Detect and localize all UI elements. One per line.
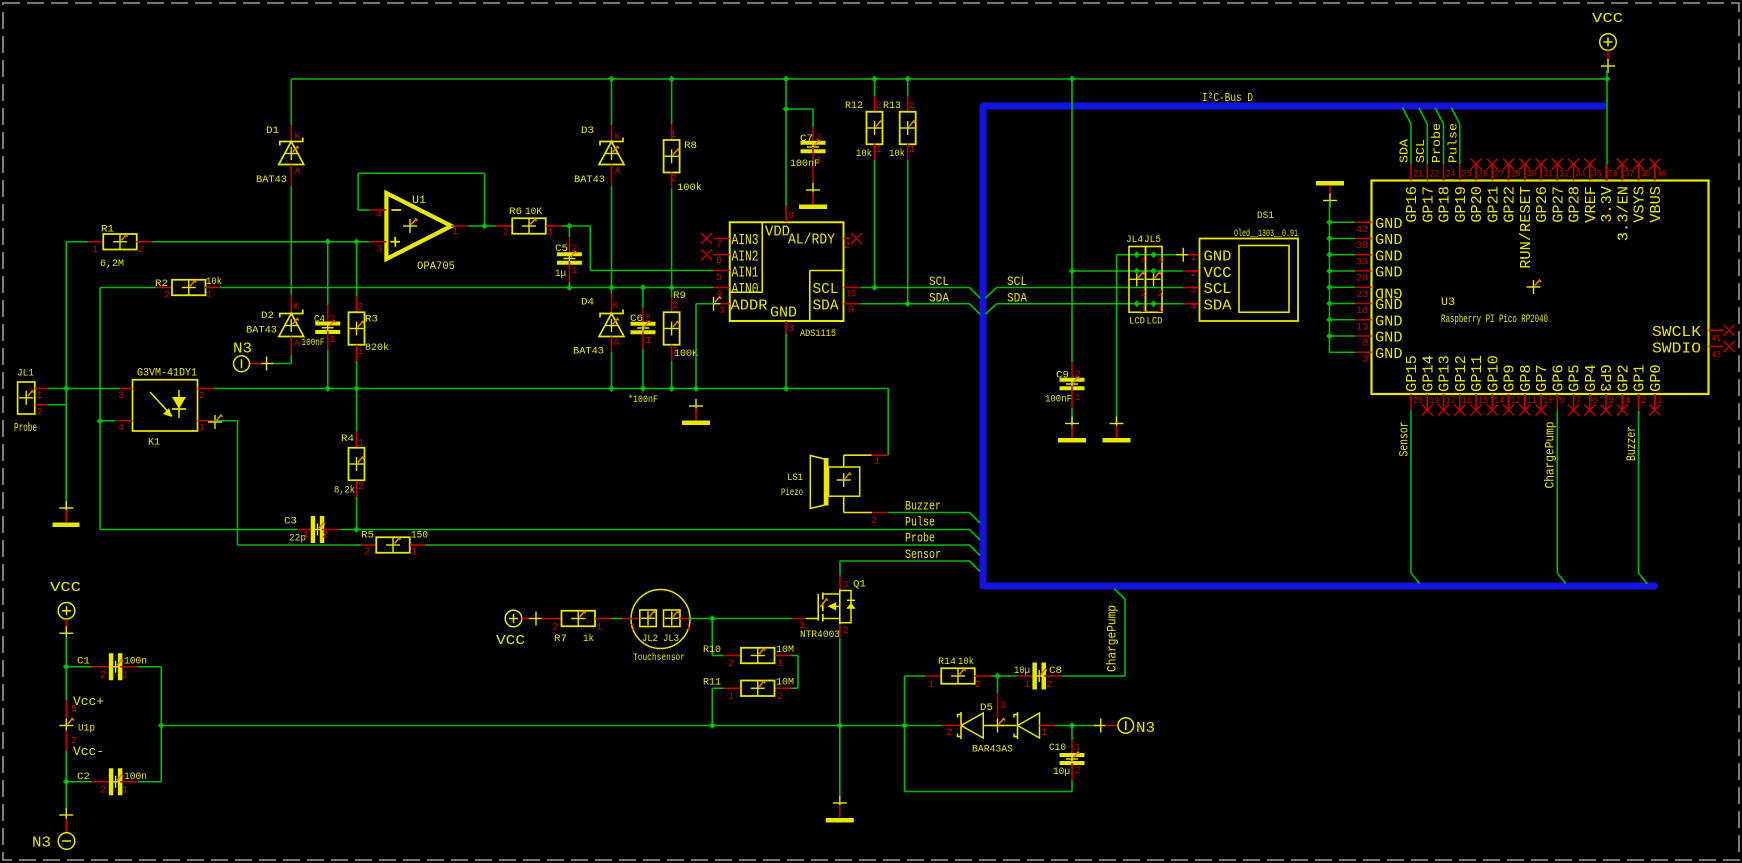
pin LS1.1 xyxy=(843,455,845,467)
ground under JL1 xyxy=(59,507,73,509)
diode D2 BAT43 xyxy=(290,295,292,314)
wire SCL to bus xyxy=(860,287,969,289)
svg-text:GP16: GP16 xyxy=(1404,186,1421,223)
svg-text:R10: R10 xyxy=(703,645,721,656)
svg-text:AIN3: AIN3 xyxy=(732,232,759,249)
capacitor C5 1u xyxy=(568,226,570,237)
pin U3 GND 28 xyxy=(1330,270,1356,272)
svg-text:Oled__1303__0.91: Oled__1303__0.91 xyxy=(1234,228,1298,240)
svg-text:VCC: VCC xyxy=(1204,265,1232,282)
svg-text:2: 2 xyxy=(975,680,981,691)
capacitor C4 100nF xyxy=(327,242,329,305)
svg-text:K: K xyxy=(293,302,299,313)
pin K1.3 xyxy=(120,388,133,390)
svg-text:Vcc-: Vcc- xyxy=(73,744,104,759)
diode D1 BAT43 xyxy=(290,79,292,125)
svg-text:7: 7 xyxy=(716,240,722,251)
svg-text:1: 1 xyxy=(92,245,98,256)
svg-text:Sensor: Sensor xyxy=(1397,422,1412,457)
ground under ADDR xyxy=(689,405,703,407)
pin U3.36 3.3V xyxy=(1605,164,1607,180)
bus entry SCL wire xyxy=(1419,108,1428,125)
capacitor C10 10u xyxy=(1071,726,1073,741)
svg-text:8,2k: 8,2k xyxy=(334,485,355,497)
svg-text:1: 1 xyxy=(909,145,915,156)
pin U3.14 GP10 xyxy=(1491,394,1493,411)
svg-text:10K: 10K xyxy=(525,207,542,218)
svg-text:U1p: U1p xyxy=(78,724,95,735)
svg-text:C5: C5 xyxy=(555,244,568,255)
svg-text:U3: U3 xyxy=(1441,297,1455,309)
svg-text:18: 18 xyxy=(1356,306,1368,317)
svg-text:4: 4 xyxy=(118,423,124,434)
svg-text:2: 2 xyxy=(816,133,822,144)
wire R6 out to AIN1 xyxy=(589,226,591,271)
pin U3.12 GP9 xyxy=(1508,394,1510,411)
svg-text:24: 24 xyxy=(1446,170,1456,181)
svg-text:1: 1 xyxy=(874,457,880,468)
wire 3.3V pin to VCC xyxy=(1606,164,1608,180)
resistor R6 10K xyxy=(496,225,512,227)
wire SDA to bus xyxy=(860,303,969,305)
pin U3.40 VBUS xyxy=(1654,164,1656,180)
svg-text:2: 2 xyxy=(358,303,364,314)
svg-text:C2: C2 xyxy=(77,772,90,783)
svg-text:GP2: GP2 xyxy=(1615,364,1632,392)
svg-text:15: 15 xyxy=(1478,396,1488,407)
wire R11 to Vcc- line xyxy=(711,688,713,725)
resistor R13 10k xyxy=(907,79,909,96)
speaker LS1 Piezo xyxy=(810,456,824,509)
svg-text:1k: 1k xyxy=(583,633,594,645)
svg-text:C8: C8 xyxy=(1049,666,1062,677)
svg-text:N3: N3 xyxy=(1136,720,1155,737)
svg-text:C7: C7 xyxy=(800,134,813,145)
display DS1 Oled_1303_0.91 xyxy=(1200,239,1299,322)
svg-text:GP10: GP10 xyxy=(1485,355,1502,392)
diode D3 BAT43 xyxy=(611,79,613,125)
wire ADDR to ground xyxy=(695,304,697,390)
wire SCL from bus to OLED xyxy=(986,288,997,299)
svg-text:1: 1 xyxy=(670,130,676,141)
svg-text:VCC: VCC xyxy=(496,633,525,649)
pin U1.4 (-in) xyxy=(358,209,369,211)
svg-text:1: 1 xyxy=(122,786,128,797)
capacitor C3 22p xyxy=(298,529,314,531)
svg-text:C6: C6 xyxy=(630,314,643,325)
svg-text:LCD: LCD xyxy=(1129,317,1145,328)
svg-text:10: 10 xyxy=(1543,396,1553,407)
svg-text:1µ: 1µ xyxy=(555,269,566,280)
svg-text:4: 4 xyxy=(1141,256,1146,266)
connector JL1 Probe xyxy=(18,382,35,414)
svg-text:VREF: VREF xyxy=(1583,186,1600,223)
wire K1.1 to Probe line xyxy=(214,420,238,422)
pin U3.26 GP20 xyxy=(1475,164,1477,180)
capacitor C7 100nF xyxy=(812,127,814,147)
wire R14 left leg xyxy=(904,676,906,792)
net Sensor wire from Q1 drain xyxy=(840,560,970,562)
svg-text:100n: 100n xyxy=(124,657,147,668)
pin U3.37 3.3/EN xyxy=(1621,164,1623,180)
svg-text:R13: R13 xyxy=(883,101,901,112)
svg-text:37: 37 xyxy=(1624,170,1634,181)
svg-text:Raspberry PI Pico RP2040: Raspberry PI Pico RP2040 xyxy=(1441,314,1548,326)
net Sensor wire from GP15 xyxy=(1410,411,1412,574)
wire D2 anode to N3 xyxy=(290,355,292,364)
svg-text:29: 29 xyxy=(1511,170,1521,181)
svg-text:GP6: GP6 xyxy=(1550,364,1567,392)
svg-text:3: 3 xyxy=(1362,355,1368,366)
pin U3.19 GP14 xyxy=(1426,394,1428,411)
net Buzzer wire from GP1 xyxy=(1638,411,1640,574)
svg-text:1: 1 xyxy=(330,335,336,346)
svg-text:1: 1 xyxy=(358,347,364,358)
svg-text:27: 27 xyxy=(1494,170,1504,181)
svg-text:13: 13 xyxy=(1356,322,1368,333)
svg-text:1: 1 xyxy=(547,228,553,239)
resistor R5 150 xyxy=(361,544,376,546)
pin U2.7 AIN3 nc xyxy=(714,238,730,240)
svg-text:2: 2 xyxy=(844,241,850,252)
svg-text:GND: GND xyxy=(770,305,797,322)
pin U3.9 GP6 xyxy=(1556,394,1558,411)
pin U2.4 AIN0 xyxy=(714,287,730,289)
svg-text:2: 2 xyxy=(100,671,106,682)
svg-text:C4: C4 xyxy=(314,314,325,325)
svg-text:D1: D1 xyxy=(266,126,279,137)
pin U3 GND 23 xyxy=(1330,286,1356,288)
svg-text:1: 1 xyxy=(206,291,212,302)
ground under C7 xyxy=(806,189,820,191)
svg-text:2: 2 xyxy=(777,692,783,703)
pin U3.11 GP8 xyxy=(1524,394,1526,411)
wire rail down to piezo pin1 xyxy=(887,389,889,456)
svg-text:GP17: GP17 xyxy=(1420,186,1437,223)
JL4/JL5 pin junctions xyxy=(1133,251,1140,258)
capacitor C6 100nF xyxy=(642,288,644,309)
svg-text:GP14: GP14 xyxy=(1420,355,1437,392)
svg-text:ADS1115: ADS1115 xyxy=(800,329,836,340)
svg-text:Pulse: Pulse xyxy=(1446,123,1460,163)
svg-text:3.3/EN: 3.3/EN xyxy=(1615,186,1632,241)
connector JL4 LCD xyxy=(1129,247,1146,313)
IC U2 ADS1115 xyxy=(730,222,844,321)
svg-text:1: 1 xyxy=(1024,680,1030,691)
svg-text:2: 2 xyxy=(843,626,849,637)
capacitor C9 100nF xyxy=(1071,362,1073,382)
svg-text:19: 19 xyxy=(1429,396,1439,407)
svg-text:820k: 820k xyxy=(365,342,389,354)
svg-text:Probe: Probe xyxy=(14,421,37,435)
svg-text:Buzzer: Buzzer xyxy=(1624,426,1639,461)
svg-text:8: 8 xyxy=(1362,339,1368,350)
connector JL5 LCD xyxy=(1146,247,1163,313)
svg-text:2: 2 xyxy=(728,659,734,670)
wire C1/C2 right side xyxy=(160,667,162,782)
wire OLED VCC row xyxy=(1072,270,1183,272)
pin U3 GND 13 xyxy=(1330,319,1356,321)
pin U3 GND 18 xyxy=(1330,303,1356,305)
svg-text:12: 12 xyxy=(1511,396,1521,407)
svg-text:BAR43AS: BAR43AS xyxy=(972,745,1013,756)
svg-text:1: 1 xyxy=(596,623,602,634)
svg-text:1: 1 xyxy=(928,680,934,691)
svg-text:C10: C10 xyxy=(1049,743,1066,754)
svg-text:16: 16 xyxy=(1462,396,1472,407)
svg-text:2: 2 xyxy=(100,786,106,797)
pin D5.2 xyxy=(942,725,961,727)
diode D4 BAT43 xyxy=(611,294,613,314)
svg-text:K1: K1 xyxy=(148,438,160,449)
svg-text:SCL: SCL xyxy=(1007,274,1027,289)
svg-text:C1: C1 xyxy=(77,657,90,668)
bus entry Probe wire xyxy=(1435,108,1444,125)
svg-text:17: 17 xyxy=(1446,396,1456,407)
svg-text:R8: R8 xyxy=(684,141,697,152)
svg-text:Sensor: Sensor xyxy=(905,547,941,562)
svg-text:33: 33 xyxy=(1356,257,1368,268)
pin K1.1 xyxy=(198,420,214,422)
svg-text:10: 10 xyxy=(846,290,856,301)
svg-text:2: 2 xyxy=(138,245,144,256)
svg-text:9: 9 xyxy=(1559,396,1565,407)
pin U3.31 GP26 xyxy=(1540,164,1542,180)
svg-text:26: 26 xyxy=(1478,170,1488,181)
wire feedback loop U1 xyxy=(357,173,359,210)
pin JL1.2 xyxy=(35,404,48,406)
net Probe wire xyxy=(238,544,362,546)
svg-text:GP0: GP0 xyxy=(1648,364,1665,392)
svg-text:SDA: SDA xyxy=(1204,297,1232,314)
svg-text:GP8: GP8 xyxy=(1518,364,1535,392)
svg-text:GP18: GP18 xyxy=(1437,186,1454,223)
wire ground rail xyxy=(48,388,121,390)
optocoupler K1 G3VM-41DY1 xyxy=(133,380,198,431)
svg-text:Buzzer: Buzzer xyxy=(905,499,941,514)
net Buzzer wire xyxy=(888,512,969,514)
svg-text:14: 14 xyxy=(1494,396,1504,407)
svg-text:31: 31 xyxy=(1543,170,1553,181)
svg-text:D4: D4 xyxy=(581,298,594,309)
wire R1 left down to ground xyxy=(65,242,67,508)
pin U1.1 (out) xyxy=(451,225,468,227)
svg-text:AIN1: AIN1 xyxy=(732,265,759,282)
svg-text:JL3: JL3 xyxy=(663,634,679,645)
pin U3.4 GP2 xyxy=(1621,394,1623,411)
capacitor C1 100n xyxy=(66,666,92,668)
pin U2.9 SDA xyxy=(844,303,861,305)
svg-text:3: 3 xyxy=(118,391,124,402)
svg-text:JL4: JL4 xyxy=(1126,235,1143,246)
svg-text:R4: R4 xyxy=(341,434,354,445)
svg-text:1: 1 xyxy=(452,227,458,238)
svg-text:100nF: 100nF xyxy=(1045,395,1072,406)
svg-text:2: 2 xyxy=(364,548,370,559)
svg-text:34: 34 xyxy=(1576,170,1586,181)
svg-text:10k: 10k xyxy=(206,276,222,288)
supply N3 (near D2) xyxy=(260,363,274,365)
svg-text:42: 42 xyxy=(1356,225,1368,236)
wire R2 to AIN0 xyxy=(220,287,714,289)
svg-text:2: 2 xyxy=(1158,289,1163,299)
svg-text:D3: D3 xyxy=(581,126,594,137)
svg-text:1: 1 xyxy=(411,548,417,559)
svg-text:GND: GND xyxy=(1375,265,1403,282)
pin U3.16 GP12 xyxy=(1459,394,1461,411)
svg-text:1: 1 xyxy=(122,671,128,682)
svg-text:JL5: JL5 xyxy=(1144,235,1161,246)
svg-text:1: 1 xyxy=(1158,305,1163,315)
svg-text:GND: GND xyxy=(1375,216,1403,233)
wire JL1.2 down to ground xyxy=(65,405,67,508)
svg-text:SCL: SCL xyxy=(813,281,839,298)
svg-text:1: 1 xyxy=(1075,743,1081,754)
wire R2 left down xyxy=(99,288,101,530)
wire bottom loop xyxy=(905,791,1073,793)
svg-text:1: 1 xyxy=(728,692,734,703)
svg-text:Pulse: Pulse xyxy=(905,515,935,530)
pin U3.24 GP18 xyxy=(1443,164,1445,180)
svg-text:VSYS: VSYS xyxy=(1632,186,1649,223)
svg-text:DS1: DS1 xyxy=(1257,211,1274,222)
svg-text:GP5: GP5 xyxy=(1567,364,1584,392)
svg-text:GP19: GP19 xyxy=(1453,186,1470,223)
svg-text:GND: GND xyxy=(1375,232,1403,249)
pin U3.22 GP17 xyxy=(1426,164,1428,180)
resistor R3 820k xyxy=(356,242,358,296)
svg-text:9: 9 xyxy=(848,306,854,317)
svg-text:GND: GND xyxy=(1204,249,1232,266)
svg-text:3: 3 xyxy=(1000,701,1006,712)
svg-text:4: 4 xyxy=(1190,302,1196,313)
svg-text:2: 2 xyxy=(909,101,915,112)
connector JL2 xyxy=(622,618,640,620)
svg-text:LS1: LS1 xyxy=(787,473,803,484)
svg-text:VDD: VDD xyxy=(765,224,790,241)
pin U3.5 GP3 xyxy=(1605,394,1607,411)
svg-text:SWCLK: SWCLK xyxy=(1652,324,1701,341)
pin U1p.2 Vcc- xyxy=(65,731,67,751)
svg-text:GND: GND xyxy=(1375,248,1403,265)
svg-text:20: 20 xyxy=(1413,396,1423,407)
net ChargePump wire from bus xyxy=(1114,589,1125,600)
svg-text:2: 2 xyxy=(876,101,882,112)
svg-text:6,2M: 6,2M xyxy=(100,259,124,270)
svg-text:1: 1 xyxy=(572,266,578,277)
svg-text:R14: R14 xyxy=(938,657,956,668)
svg-text:10M: 10M xyxy=(776,678,794,689)
wire down power chain xyxy=(65,667,67,701)
capacitor C8 10u xyxy=(1017,675,1034,677)
svg-text:R3: R3 xyxy=(365,315,378,326)
svg-text:BAT43: BAT43 xyxy=(574,175,605,186)
svg-text:G3VM-41DY1: G3VM-41DY1 xyxy=(137,368,197,380)
resistor R2 10k xyxy=(100,287,156,289)
svg-text:22: 22 xyxy=(1429,170,1439,181)
svg-text:GP3: GP3 xyxy=(1596,364,1613,392)
wire SDA from bus to OLED xyxy=(986,304,997,315)
svg-text:21: 21 xyxy=(1413,170,1423,181)
svg-text:3: 3 xyxy=(788,324,794,335)
svg-text:2: 2 xyxy=(1190,269,1196,280)
svg-text:30: 30 xyxy=(1527,170,1537,181)
svg-text:R11: R11 xyxy=(703,678,721,689)
ground under C9 xyxy=(1065,423,1079,425)
net ChargePump wire from GP6 xyxy=(1556,411,1558,574)
svg-text:GP22: GP22 xyxy=(1502,186,1519,223)
pin U3.32 GP27 xyxy=(1556,164,1558,180)
resistor R4 8,2k xyxy=(356,389,358,432)
svg-text:2: 2 xyxy=(1075,766,1081,777)
svg-text:41: 41 xyxy=(1711,334,1721,345)
pin U1p.5 Vcc+ xyxy=(65,701,67,721)
svg-text:5: 5 xyxy=(716,273,722,284)
svg-text:1: 1 xyxy=(1141,305,1146,315)
svg-text:N3: N3 xyxy=(32,835,51,852)
svg-text:D5: D5 xyxy=(980,703,993,714)
pin U3 GND 38 xyxy=(1330,238,1356,240)
svg-text:R5: R5 xyxy=(361,531,374,542)
transistor Q1 NTR4003 (MOSFET) xyxy=(839,561,841,576)
svg-text:VCC: VCC xyxy=(50,580,81,596)
pin U3.20 GP15 xyxy=(1410,394,1412,411)
svg-text:LCD: LCD xyxy=(1147,317,1163,328)
svg-text:32: 32 xyxy=(1559,170,1569,181)
svg-text:C9: C9 xyxy=(1056,371,1069,382)
svg-text:1: 1 xyxy=(799,621,805,632)
svg-text:38: 38 xyxy=(1356,241,1368,252)
svg-text:NTR4003: NTR4003 xyxy=(800,630,840,641)
resistor R11 10M xyxy=(775,687,791,689)
svg-text:U1: U1 xyxy=(412,195,426,207)
svg-text:C3: C3 xyxy=(284,517,297,528)
svg-text:2: 2 xyxy=(871,516,877,527)
svg-text:28: 28 xyxy=(1356,274,1368,285)
svg-text:GP15: GP15 xyxy=(1404,355,1421,392)
svg-text:JL1: JL1 xyxy=(17,369,34,380)
svg-text:2: 2 xyxy=(572,244,578,255)
svg-text:1: 1 xyxy=(876,145,882,156)
svg-text:2: 2 xyxy=(322,531,328,542)
touch sensor circle xyxy=(631,590,690,649)
wire VCC top rail xyxy=(291,78,1607,80)
capacitor C2 100n xyxy=(66,781,92,783)
svg-text:K: K xyxy=(615,132,621,143)
bus I2C-Bus D xyxy=(983,106,1655,586)
svg-text:GP20: GP20 xyxy=(1469,186,1486,223)
svg-text:SDA: SDA xyxy=(1398,138,1412,163)
svg-text:10µ: 10µ xyxy=(1014,666,1030,677)
svg-text:JL2: JL2 xyxy=(642,634,658,645)
svg-text:2: 2 xyxy=(645,314,651,325)
svg-text:2: 2 xyxy=(164,291,170,302)
svg-text:10µ: 10µ xyxy=(1053,767,1070,778)
pin U3.29 GP22 xyxy=(1508,164,1510,180)
pin U2.3 GND xyxy=(785,321,787,334)
svg-text:SDA: SDA xyxy=(1007,291,1027,306)
svg-text:GP12: GP12 xyxy=(1453,355,1470,392)
pin JL1.1 xyxy=(35,388,48,390)
svg-text:1: 1 xyxy=(1190,253,1196,264)
svg-text:100k: 100k xyxy=(677,182,702,194)
svg-text:R6: R6 xyxy=(509,207,522,218)
pin D5.1 xyxy=(1040,725,1056,727)
svg-text:2: 2 xyxy=(1075,370,1081,381)
svg-text:11: 11 xyxy=(1527,396,1537,407)
svg-text:ChargePump: ChargePump xyxy=(1105,605,1120,672)
svg-text:Touchsensor: Touchsensor xyxy=(633,652,685,664)
